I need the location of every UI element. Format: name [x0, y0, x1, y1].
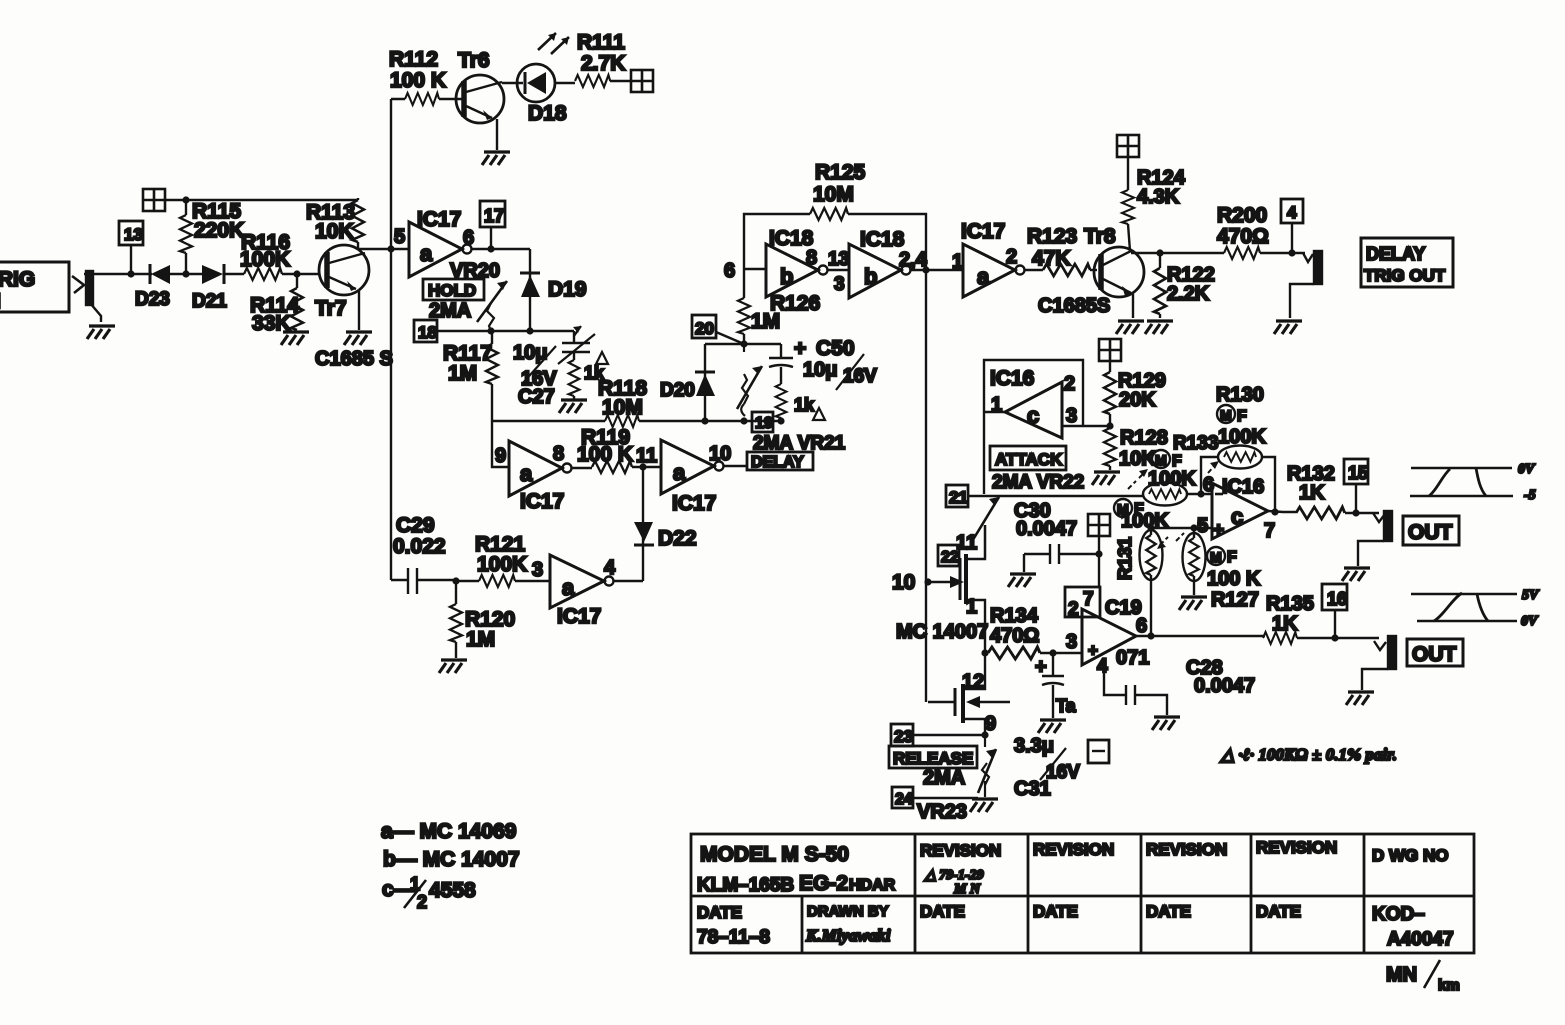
svg-text:OUT: OUT [1408, 521, 1453, 544]
svg-text:3.3μ: 3.3μ [1014, 735, 1054, 757]
svg-text:△ 79-1-29: △ 79-1-29 [924, 868, 984, 883]
potentiometer VR21 [737, 344, 762, 416]
svg-text:D19: D19 [548, 278, 587, 301]
svg-text:1K: 1K [1299, 482, 1325, 504]
svg-text:2.7K: 2.7K [581, 52, 625, 75]
svg-text:IC17: IC17 [672, 492, 716, 515]
svg-text:3: 3 [1066, 631, 1077, 653]
svg-text:DRAWN BY: DRAWN BY [807, 903, 889, 920]
svg-text:10μ: 10μ [803, 359, 837, 381]
svg-text:M: M [1210, 549, 1222, 565]
resistor R124 [1122, 157, 1186, 251]
svg-text:15: 15 [1348, 463, 1368, 483]
svg-text:REVISION: REVISION [1256, 838, 1337, 857]
inverter IC17 a (delay out) [961, 220, 1043, 297]
junction [922, 266, 929, 273]
node 17 [480, 201, 505, 249]
svg-text:km: km [1438, 977, 1460, 994]
resistor R123 [1027, 225, 1097, 276]
svg-text:Tr8: Tr8 [1084, 225, 1116, 248]
MOSFET (MC14007 pins 11-1) [928, 525, 985, 651]
svg-text:20K: 20K [1119, 389, 1156, 411]
waveform 1 (0V / -5) [1410, 462, 1536, 503]
diode D22 [634, 467, 697, 581]
svg-text:KOD–: KOD– [1372, 904, 1425, 925]
svg-text:0V: 0V [1521, 614, 1539, 629]
ground under R120 [439, 660, 467, 673]
delay trig out jack [1290, 251, 1322, 318]
collector output wire [1131, 252, 1224, 254]
svg-text:DATE: DATE [1256, 902, 1301, 921]
svg-text:C31: C31 [1014, 778, 1051, 800]
inverter IC17 a (first) [409, 208, 530, 277]
ground under Tr7 emitter [344, 332, 372, 345]
ground under R122 [1145, 321, 1173, 334]
svg-text:TRIG: TRIG [0, 268, 35, 291]
potentiometer VR22 [956, 497, 999, 558]
junction [1288, 249, 1295, 256]
svg-text:R134: R134 [990, 605, 1039, 627]
svg-text:R200: R200 [1217, 204, 1267, 227]
svg-text:10M: 10M [813, 183, 854, 206]
capacitor C30 [1014, 500, 1099, 572]
junction [452, 577, 459, 584]
svg-text:3: 3 [1066, 405, 1077, 427]
ground under R127 [1179, 597, 1207, 610]
svg-text:M N: M N [953, 882, 981, 897]
potentiometer VR23 [978, 735, 996, 797]
inverter IC17 a (third) [661, 440, 747, 515]
DELAY label box [747, 452, 813, 471]
svg-text:24: 24 [895, 791, 913, 808]
svg-text:M: M [1155, 452, 1167, 468]
svg-text:MN: MN [1386, 964, 1417, 986]
op-amp IC16 c (output) [1197, 474, 1296, 542]
svg-text:100 K: 100 K [1207, 568, 1261, 590]
inverter IC17 a (bottom) [550, 555, 643, 628]
node 23 [891, 724, 985, 746]
OUT label box 1 [1403, 516, 1459, 545]
svg-text:470Ω: 470Ω [990, 625, 1039, 647]
svg-text:2MA: 2MA [923, 767, 965, 789]
svg-text:Tr6: Tr6 [458, 49, 490, 72]
inverter IC18 b (first) [766, 227, 849, 297]
power + terminal (top) [631, 70, 653, 92]
svg-text:4: 4 [1097, 656, 1108, 677]
inverter IC18 b (second) [849, 228, 963, 298]
junction [740, 340, 747, 347]
output jack 1 [1358, 511, 1392, 566]
TRIG IN label box [0, 262, 69, 313]
inverter IC17 a (second) [509, 441, 592, 513]
svg-text:F: F [1227, 549, 1237, 566]
waveform 2 (5V / 0V) [1411, 588, 1540, 629]
svg-text:22: 22 [941, 549, 959, 566]
svg-text:b: b [864, 264, 877, 289]
svg-text:3: 3 [532, 559, 543, 581]
svg-text:a: a [977, 264, 990, 289]
svg-text:a: a [562, 575, 575, 600]
svg-text:2: 2 [1064, 373, 1075, 395]
wire into IC18 [744, 268, 766, 270]
svg-text:13: 13 [124, 225, 143, 244]
ground under input jack [87, 326, 115, 339]
ground under R128 [1092, 472, 1120, 485]
svg-text:2.2K: 2.2K [1167, 283, 1210, 305]
svg-text:6: 6 [1203, 474, 1214, 496]
svg-text:2MA VR21: 2MA VR21 [753, 433, 846, 454]
collector wire to inverter input [359, 248, 409, 250]
wire node21 to R133 [968, 495, 1144, 497]
svg-text:Tr7: Tr7 [315, 297, 347, 320]
node 18 [414, 320, 437, 342]
svg-text:4558: 4558 [429, 879, 476, 902]
junction [182, 196, 189, 203]
resistor R134 [988, 605, 1082, 659]
svg-text:16V: 16V [1046, 762, 1080, 783]
svg-text:IC16: IC16 [1222, 476, 1264, 498]
wire pin5 [1151, 527, 1212, 529]
svg-text:13: 13 [828, 249, 849, 270]
hold bus wire [492, 421, 781, 467]
resistor R112 [389, 48, 456, 105]
svg-text:K.Miyawaki: K.Miyawaki [805, 926, 891, 945]
node 22 [938, 545, 959, 566]
svg-text:6: 6 [1136, 615, 1147, 637]
junction [182, 270, 189, 277]
svg-text:+: + [794, 337, 806, 360]
svg-text:IC17: IC17 [961, 220, 1005, 243]
svg-text:11: 11 [636, 445, 657, 467]
capacitor C27 with 1k divider [513, 326, 595, 408]
svg-text:1: 1 [952, 251, 963, 273]
resistor R118 (in bus) [598, 377, 647, 427]
resistor 1k (under C27) [569, 352, 608, 399]
RELEASE label box [889, 746, 977, 768]
comparator IC16 c (attack) with box [984, 360, 1110, 494]
svg-text:R123: R123 [1027, 225, 1077, 248]
node 21 [946, 485, 968, 507]
resistor R127 (matched) [1176, 528, 1261, 611]
junction [1147, 524, 1154, 531]
resistor 1k (right) [776, 384, 825, 421]
svg-text:5V: 5V [1522, 588, 1540, 603]
power - terminal [1088, 740, 1109, 763]
junction [1190, 524, 1197, 531]
svg-text:47K: 47K [1032, 247, 1071, 270]
junction [639, 463, 646, 470]
svg-text:IC17: IC17 [557, 605, 601, 628]
svg-text:R131: R131 [1115, 537, 1135, 580]
svg-text:5: 5 [394, 226, 405, 248]
input jack [72, 271, 146, 322]
junction [740, 417, 747, 424]
ground under Tr8 [1116, 321, 1144, 334]
node 24 [892, 787, 978, 808]
node 4 [1281, 199, 1303, 253]
junction [1352, 509, 1359, 516]
svg-text:DATE: DATE [920, 902, 965, 921]
resistor R132 [1287, 463, 1379, 519]
svg-text:D WG NO: D WG NO [1372, 846, 1449, 865]
junction [1147, 632, 1154, 639]
svg-text:C27: C27 [518, 386, 555, 408]
svg-text:23: 23 [894, 727, 913, 746]
svg-text:100K: 100K [477, 553, 527, 576]
svg-text:KLM–165B: KLM–165B [697, 875, 794, 896]
ground under VR23 [970, 799, 998, 812]
wire C50 top rail [705, 343, 781, 345]
op-amp IC19 (071) [1065, 587, 1265, 677]
svg-text:REVISION: REVISION [1146, 840, 1227, 859]
svg-text:C50: C50 [816, 337, 855, 360]
svg-text:100K: 100K [1121, 510, 1169, 532]
svg-text:MODEL M S-50: MODEL M S-50 [700, 843, 849, 866]
svg-text:8: 8 [553, 443, 564, 465]
svg-text:071: 071 [1116, 647, 1149, 669]
svg-text:21: 21 [949, 488, 968, 507]
OUT label box 2 [1407, 639, 1463, 666]
ground under delay jack [1274, 321, 1302, 334]
junction [127, 270, 134, 277]
svg-text:F: F [1237, 408, 1247, 425]
svg-text:IC17: IC17 [417, 208, 461, 231]
svg-text:0V: 0V [1518, 462, 1536, 477]
svg-text:10: 10 [892, 571, 915, 594]
svg-text:D21: D21 [192, 291, 227, 312]
svg-text:4: 4 [1287, 203, 1297, 222]
svg-text:18: 18 [418, 323, 437, 342]
capacitor C50 [769, 337, 877, 390]
svg-text:REVISION: REVISION [1033, 840, 1114, 859]
power + terminal (left) [143, 189, 165, 211]
svg-text:Ta: Ta [1056, 696, 1077, 716]
svg-text:0.0047: 0.0047 [1016, 518, 1077, 540]
svg-text:4.3K: 4.3K [1137, 186, 1180, 208]
svg-text:RELEASE: RELEASE [893, 749, 973, 768]
svg-text:R130: R130 [1216, 384, 1264, 406]
junction [1197, 490, 1204, 497]
svg-text:2: 2 [1006, 246, 1017, 268]
junction [981, 649, 988, 656]
svg-text:IN: IN [0, 290, 1, 313]
diode D20 [660, 344, 715, 421]
node 13 [119, 221, 143, 274]
svg-text:C1685 S: C1685 S [315, 348, 393, 370]
svg-text:+: + [1213, 520, 1224, 541]
label 3.3u 16V C31 [1014, 735, 1080, 800]
resistor R129 [1104, 361, 1166, 426]
svg-text:HDAR: HDAR [849, 877, 896, 894]
ground under jack 2 [1346, 692, 1374, 705]
junction [1156, 249, 1163, 256]
svg-text:△ ·ℓ· 100KΩ ± 0.1% pair.: △ ·ℓ· 100KΩ ± 0.1% pair. [1219, 745, 1397, 764]
node 16 [1322, 584, 1347, 638]
svg-text:R135: R135 [1266, 593, 1314, 615]
svg-text:R125: R125 [815, 161, 866, 184]
svg-text:D22: D22 [658, 527, 697, 550]
transistor Tr6 [456, 49, 504, 150]
svg-text:a: a [673, 460, 686, 485]
svg-text:470Ω: 470Ω [1217, 225, 1269, 248]
junction [924, 578, 931, 585]
junction [1331, 634, 1338, 641]
svg-text:MC 14007: MC 14007 [896, 621, 988, 643]
svg-text:6: 6 [724, 260, 735, 282]
svg-text:OUT: OUT [1412, 643, 1457, 666]
junction [487, 245, 494, 252]
wire from + to top rail [165, 199, 186, 201]
svg-text:-5: -5 [1524, 488, 1536, 503]
node 15 [1344, 459, 1368, 513]
svg-text:1M: 1M [466, 628, 495, 651]
svg-text:3: 3 [834, 274, 845, 295]
svg-text:10K: 10K [1119, 448, 1156, 470]
svg-text:VR23: VR23 [917, 801, 967, 823]
resistor R122 [1154, 253, 1215, 318]
handwritten note 100K 0.1% pair [1219, 745, 1397, 764]
power + terminal above R124 [1117, 135, 1139, 157]
junction [487, 327, 494, 334]
output jack 2 [1362, 636, 1396, 690]
svg-text:78–11–8: 78–11–8 [697, 927, 770, 948]
svg-text:10: 10 [709, 443, 731, 465]
resistor R130 (feedback, matched) [1201, 384, 1275, 512]
svg-text:1M: 1M [448, 362, 477, 385]
diode D21 [186, 264, 244, 312]
transistor Tr8 [1084, 225, 1144, 318]
ground under C30 [1008, 574, 1036, 587]
svg-text:b— MC 14007: b— MC 14007 [383, 848, 520, 871]
diode D19 [520, 249, 587, 331]
svg-text:8: 8 [806, 247, 817, 269]
svg-text:0.0047: 0.0047 [1194, 675, 1255, 697]
svg-text:16V: 16V [843, 366, 877, 387]
junction [387, 245, 394, 252]
title block table [691, 834, 1474, 953]
svg-text:a: a [420, 241, 433, 266]
svg-text:ATTACK: ATTACK [995, 450, 1063, 469]
svg-text:C29: C29 [396, 514, 435, 537]
junction [1106, 422, 1113, 429]
svg-text:1: 1 [966, 596, 977, 618]
junction [777, 417, 784, 424]
ATTACK label box [990, 446, 1066, 470]
junction [1049, 649, 1056, 656]
svg-text:16: 16 [1327, 589, 1347, 609]
svg-text:D18: D18 [528, 102, 567, 125]
svg-text:220K: 220K [194, 219, 244, 242]
junction [293, 270, 300, 277]
legend a/b/c [381, 820, 520, 912]
svg-text:DATE: DATE [1033, 902, 1078, 921]
svg-text:100K: 100K [1148, 468, 1196, 490]
svg-text:C1685S: C1685S [1038, 295, 1110, 317]
svg-text:EG-2: EG-2 [799, 872, 848, 895]
title block texts [697, 838, 1454, 950]
svg-text:IC16: IC16 [990, 367, 1034, 390]
resistor R113 [306, 198, 364, 249]
svg-text:20: 20 [695, 319, 714, 338]
diode D23 [135, 264, 186, 310]
resistor R111 [575, 31, 631, 87]
resistor R200 [1217, 204, 1305, 259]
resistor R121 [456, 533, 550, 587]
power + terminal (IC19) [1088, 514, 1110, 536]
svg-text:IC18: IC18 [860, 228, 905, 251]
svg-text:D20: D20 [660, 380, 695, 401]
power + terminal above R129 [1099, 339, 1121, 361]
svg-text:19: 19 [755, 415, 773, 432]
transistor Tr7 [315, 245, 369, 330]
junction [1095, 550, 1102, 557]
svg-text:a: a [520, 461, 533, 486]
svg-text:R127: R127 [1211, 589, 1259, 611]
svg-text:IC17: IC17 [520, 490, 564, 513]
svg-text:DATE: DATE [1146, 902, 1191, 921]
resistor R114 [250, 274, 303, 335]
feedback loop wire with R125 [744, 161, 926, 702]
svg-text:b: b [780, 264, 793, 289]
svg-text:DATE: DATE [697, 903, 742, 922]
resistor R131 (matched) [1114, 499, 1169, 636]
svg-text:9: 9 [985, 713, 996, 735]
resistor R119 [577, 426, 661, 473]
svg-text:10K: 10K [315, 220, 354, 243]
svg-text:+: + [1035, 656, 1047, 678]
svg-text:7: 7 [1083, 589, 1094, 610]
ground under Tr6 [482, 152, 510, 165]
ground under R114 [281, 332, 309, 345]
svg-text:DELAY: DELAY [751, 454, 804, 471]
resistor R128 [1104, 427, 1168, 470]
top supply rail [186, 199, 358, 201]
ground under jack 1 [1342, 568, 1370, 581]
svg-text:A40047: A40047 [1387, 929, 1454, 950]
wire vertical from R112 down to IC17a input [390, 99, 392, 580]
resistor R126 [738, 269, 820, 344]
node 19 [752, 412, 773, 432]
svg-text:2: 2 [417, 892, 427, 912]
capacitor C28 [1104, 657, 1255, 715]
svg-text:R111: R111 [577, 31, 625, 54]
LED D18 [502, 33, 575, 125]
capacitor C31 (Ta 3.3u) [1035, 653, 1077, 718]
svg-text:R133: R133 [1173, 433, 1218, 454]
svg-text:1k: 1k [794, 395, 815, 415]
capacitor C29 [391, 514, 456, 594]
svg-text:M: M [1220, 407, 1232, 423]
junction [701, 417, 708, 424]
resistor R116 [240, 231, 320, 280]
svg-text:REVISION: REVISION [920, 841, 1001, 860]
svg-text:c: c [1231, 504, 1243, 529]
svg-text:a— MC 14069: a— MC 14069 [381, 820, 516, 843]
svg-text:DELAY: DELAY [1366, 244, 1425, 264]
approval MN/km [1386, 960, 1460, 994]
junction [526, 327, 533, 334]
junction [1271, 508, 1278, 515]
svg-text:TRIG OUT: TRIG OUT [1364, 266, 1446, 285]
DELAY TRIG OUT label box [1361, 238, 1453, 287]
svg-text:R112: R112 [389, 48, 438, 71]
svg-text:D23: D23 [135, 289, 170, 310]
ground under C31 [1038, 720, 1066, 733]
svg-text:2: 2 [1068, 599, 1079, 620]
wire node18 to C27 [437, 330, 574, 332]
wire + to IC19 [1098, 536, 1100, 587]
svg-text:100 K: 100 K [390, 69, 446, 92]
